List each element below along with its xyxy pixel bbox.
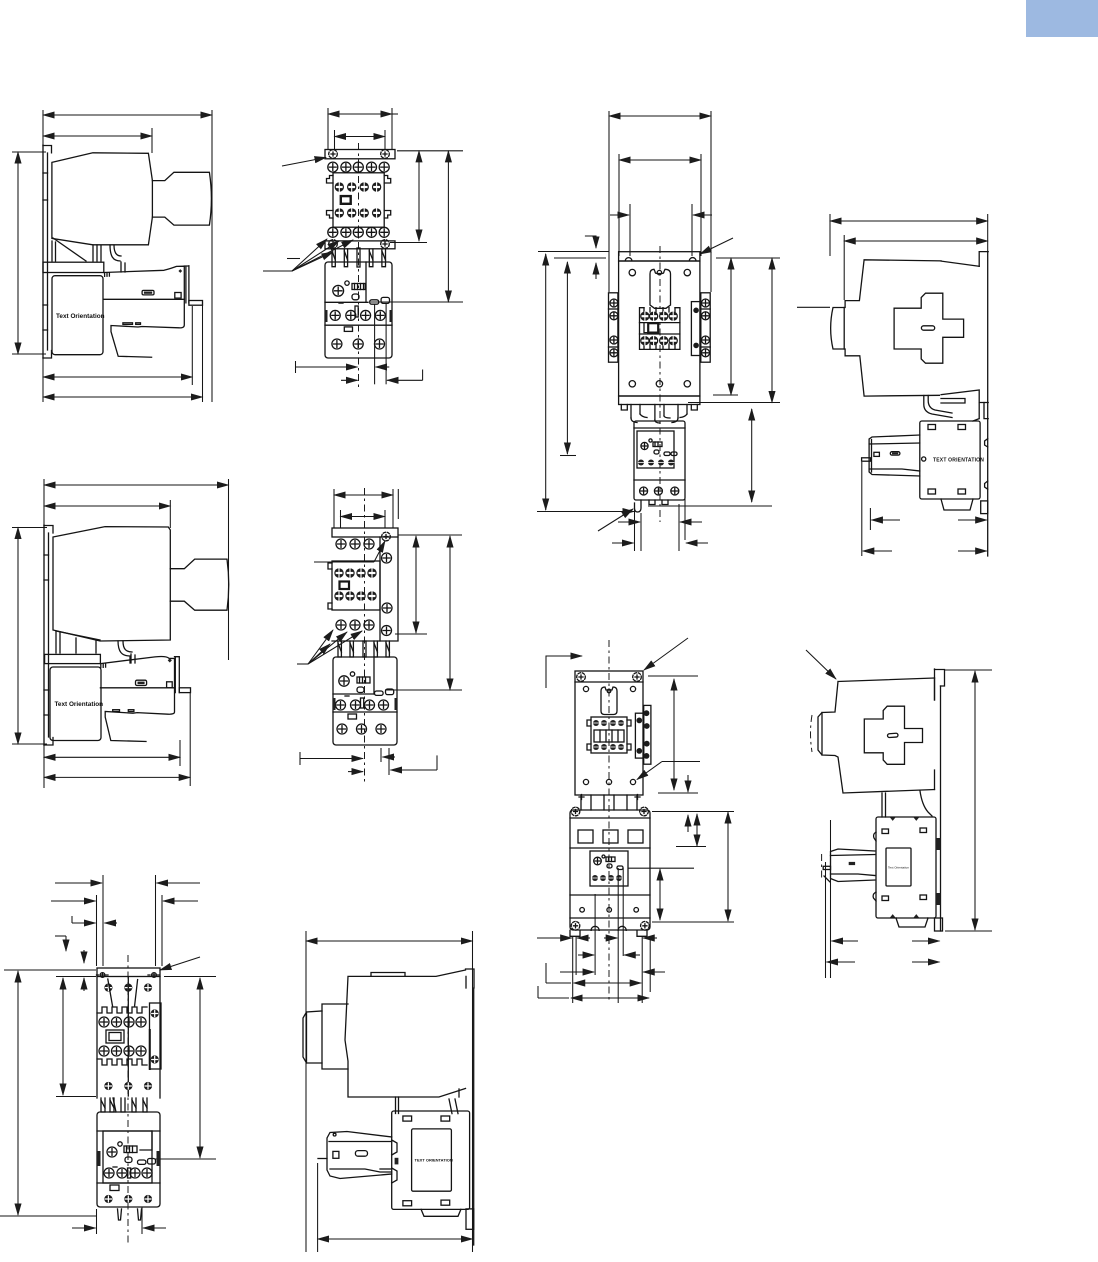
relay screw row — [336, 700, 389, 710]
witness pin — [191, 306, 193, 385]
witness outer right — [710, 111, 712, 292]
dimension bottom row 2 — [827, 961, 940, 963]
terminal screw row 1 — [336, 539, 374, 549]
add-on block right inner — [691, 302, 700, 356]
witness contactor bottom — [56, 1096, 96, 1098]
svg-text:TEXT ORIENTATION: TEXT ORIENTATION — [933, 458, 984, 464]
dimension row 1 — [55, 882, 200, 884]
mounting plane — [985, 252, 988, 556]
dimension body depth — [844, 240, 988, 242]
bottom dimension — [72, 1227, 166, 1229]
dimension height — [17, 528, 19, 745]
witness hole left — [340, 510, 342, 528]
connector legs — [338, 641, 389, 657]
coil window — [341, 196, 351, 204]
top-left bracket dimension — [546, 656, 582, 688]
witness left — [829, 214, 831, 256]
adjustment dial — [339, 672, 355, 686]
drawing 1: contactor with overload relay, side view (top-left) — [12, 110, 212, 402]
relay bottom screws — [104, 1195, 152, 1203]
dimension hole span — [673, 679, 675, 790]
witness hole left — [618, 154, 620, 256]
dimension hole pitch — [341, 516, 386, 518]
witness front face — [169, 500, 171, 528]
body outline — [619, 261, 700, 396]
bottom dim row 4 — [546, 963, 641, 983]
small offset dimension — [55, 936, 66, 951]
overload relay side box — [873, 817, 936, 918]
contactor body outline — [303, 970, 466, 1097]
dimension body height — [730, 258, 732, 395]
dimension contactor height — [415, 536, 417, 633]
overload relay housing — [97, 1112, 160, 1207]
leader to bottom fixing hole — [637, 762, 700, 780]
upper housing — [97, 977, 160, 1099]
terminal screw row 2 — [328, 227, 389, 237]
witness adjuster level — [385, 689, 462, 691]
right witness mid — [713, 394, 738, 396]
relay side clips — [325, 310, 328, 322]
dimension overall height — [449, 536, 451, 690]
witness contactor top — [56, 976, 96, 978]
witness right — [392, 489, 394, 528]
drawing 3: large contactor with overload relay, front view (top-right-centre) — [537, 111, 780, 551]
witness height bottom — [12, 743, 47, 745]
dimension depth to aux — [871, 519, 986, 521]
centre line — [127, 955, 129, 1245]
dimension outer width — [609, 115, 711, 117]
dimension module height — [659, 869, 661, 920]
overload relay side box — [392, 1111, 470, 1209]
witness relay bottom right — [648, 505, 772, 507]
bottom pins — [118, 1209, 142, 1220]
relay side clips — [333, 698, 336, 710]
witness pin line b — [830, 820, 832, 978]
witness pin line a — [825, 862, 827, 978]
relay screw row — [330, 310, 385, 320]
contactor body side outline — [52, 153, 152, 245]
bottom witness a — [374, 304, 376, 384]
witness bottom height — [12, 353, 46, 355]
lower block outline — [570, 810, 650, 930]
dimension slot band — [696, 814, 698, 846]
bottom witness b — [385, 304, 387, 384]
fixing hole dashed — [382, 532, 391, 541]
dimension right height — [199, 978, 201, 1158]
dimension contactor height — [418, 151, 420, 241]
witness pin outer — [202, 302, 204, 402]
keyhole slot — [601, 687, 617, 715]
bottom plate — [325, 241, 395, 249]
centre line — [659, 246, 661, 522]
dimension total depth — [830, 220, 988, 222]
overload relay housing — [333, 657, 397, 745]
lower block holes — [580, 908, 639, 913]
terminal comb top — [97, 1007, 147, 1013]
drawing 9: contactor with overload relay, front view (bottom-left) — [0, 875, 216, 1245]
witness relay mid — [560, 455, 576, 457]
contactor body outline — [831, 252, 989, 403]
lower screw row — [104, 1082, 152, 1090]
bottom fixing holes dashed — [329, 240, 338, 249]
coil end cap — [170, 559, 228, 610]
fixing holes dashed — [329, 150, 338, 159]
bottom witness lines — [573, 868, 651, 1003]
witness bottom long — [537, 511, 634, 513]
leader to fixing hole — [700, 238, 733, 254]
lower connector — [924, 396, 988, 422]
mounting plane witness — [987, 214, 989, 251]
witness lower block bottom — [652, 921, 734, 923]
witness pin outer — [189, 692, 191, 786]
witness left — [333, 489, 335, 528]
bottom witness lines — [635, 499, 686, 551]
corner fixing holes — [577, 673, 642, 682]
dimension row 2 — [51, 900, 198, 902]
witness slot right — [691, 204, 693, 256]
leader to fixing hole — [160, 957, 200, 970]
witness right outer — [228, 479, 230, 660]
witness lug level — [688, 402, 780, 404]
svg-text:Text Orientation: Text Orientation — [56, 313, 105, 320]
right auxiliary strip — [701, 293, 710, 362]
overload relay block — [634, 421, 685, 500]
dimension depth row 1 — [44, 756, 180, 758]
lower connector — [882, 791, 932, 817]
witness body edge bottom — [96, 1209, 98, 1234]
contactor body side outline — [53, 527, 170, 641]
auxiliary screw row a — [335, 182, 382, 191]
centre line — [608, 640, 610, 1000]
drawing 6: contactor with overload relay front view (middle) — [297, 488, 462, 782]
selector comb — [345, 677, 370, 708]
terminal screws row 1 — [99, 1017, 146, 1027]
witness edge right — [161, 895, 163, 966]
overload relay body right profile — [104, 262, 203, 357]
short witness at knob — [797, 306, 830, 308]
leader lines to terminals — [263, 239, 353, 271]
mounting holes — [583, 686, 635, 784]
right add-on column — [380, 537, 398, 641]
reset window — [348, 714, 357, 719]
witness slot left — [629, 204, 631, 256]
dimension total depth top — [306, 940, 473, 942]
coil window — [340, 582, 350, 590]
left witness top — [538, 251, 609, 253]
svg-text:Text Orientation: Text Orientation — [888, 866, 909, 870]
right clips — [936, 838, 941, 905]
bottom dim row 1 — [618, 521, 702, 523]
terminal slots — [578, 830, 643, 843]
DIN rail mounting plane — [44, 525, 53, 745]
drawing 4: large contactor with overload relay, side view (top-far-right) — [797, 214, 988, 556]
centre line — [358, 143, 360, 390]
relay screw row — [638, 460, 674, 466]
bottom hook — [635, 500, 669, 512]
dimension bottom depth — [318, 1238, 473, 1240]
witness inner — [843, 235, 845, 300]
relay module on lower block — [590, 851, 628, 886]
blue page corner marker — [1026, 0, 1098, 37]
right witness bottom — [945, 930, 992, 932]
body lower edge — [332, 640, 398, 642]
keyhole slot — [650, 269, 671, 308]
small arrow below lug line — [687, 815, 689, 832]
connector legs — [332, 248, 386, 267]
svg-text:Text Orientation: Text Orientation — [55, 701, 104, 708]
fixing holes — [97, 973, 161, 978]
aux centre line — [821, 854, 823, 880]
coil screws row b — [640, 336, 678, 345]
overload relay side box — [920, 421, 980, 499]
dimension bottom row 1 — [832, 940, 940, 942]
dimension height — [17, 152, 19, 354]
drawing 8: large contactor with overload relay, side view (middle-far-right) — [806, 650, 992, 978]
right witness top — [945, 669, 992, 671]
dimension outer width — [328, 113, 392, 115]
terminal screw row 2 — [336, 620, 374, 630]
witness pin area — [179, 740, 181, 766]
left auxiliary strip — [609, 293, 618, 362]
right witness mid — [390, 242, 427, 244]
witness line coil front — [151, 128, 153, 153]
witness slot band — [676, 846, 706, 848]
coil screws row a — [593, 720, 624, 726]
relay bottom screws — [337, 724, 386, 734]
witness height top — [12, 527, 47, 529]
bottom dim row 2 — [578, 954, 640, 956]
side clips — [97, 1151, 160, 1166]
bottom foot — [896, 918, 943, 931]
dimension total height — [974, 671, 976, 930]
overload relay body right profile — [100, 654, 190, 742]
dimension hole pitch — [619, 159, 701, 161]
bottom dim row 3 — [560, 971, 665, 973]
dimension total width — [43, 114, 212, 116]
cross shaped boss — [894, 293, 964, 363]
witness top height — [12, 151, 46, 153]
right witness top — [716, 257, 780, 259]
plate thickness arrows — [83, 950, 85, 991]
witness adjuster level — [371, 301, 464, 303]
dimension hole pitch — [335, 136, 386, 138]
top plate — [325, 150, 395, 159]
relay detail module — [637, 431, 677, 468]
witness left — [305, 931, 307, 1252]
dimension depth row 2 — [44, 776, 190, 778]
witness hole right — [384, 130, 386, 150]
right witness mid — [395, 633, 427, 635]
relay screw row — [104, 1168, 152, 1178]
witness aux bottom — [869, 508, 871, 530]
cross shaped boss — [864, 706, 922, 764]
bottom foot — [941, 499, 988, 514]
leader to fixing hole — [282, 158, 326, 167]
relay box edge marks — [890, 818, 919, 918]
lower block fixing holes — [570, 807, 649, 936]
body outline — [575, 671, 643, 795]
witness outer left — [608, 111, 610, 292]
drawing 10: contactor with overload relay, side view (bottom-middle) — [303, 931, 474, 1252]
witness lower block top — [652, 811, 734, 813]
bottom dim row 2 — [341, 370, 423, 381]
dimension overall height — [447, 151, 449, 302]
witness edge left — [96, 895, 98, 966]
bottom witness a — [380, 748, 382, 762]
right add-on strip — [150, 1003, 162, 1069]
dimension relay height — [751, 409, 753, 502]
top plate — [97, 968, 160, 977]
overload relay housing — [325, 262, 392, 358]
dimension to relay mid — [566, 262, 568, 454]
bottom dim row 2 — [612, 542, 708, 544]
dimension total height — [17, 971, 19, 1215]
centre line — [364, 488, 366, 782]
relay inner panel — [103, 1131, 152, 1183]
terminal lugs below body — [631, 405, 687, 424]
leader lines to terminals — [297, 630, 362, 664]
overload relay label face — [50, 667, 101, 741]
dimension total depth — [43, 396, 203, 398]
mounting bracket right — [466, 969, 475, 1245]
terminal lugs below body — [579, 795, 640, 811]
right witness top — [399, 534, 463, 536]
small arrow at lug level — [687, 775, 689, 792]
coil screws row a — [640, 312, 678, 321]
dash-dot front arc — [811, 715, 813, 752]
pin — [318, 1158, 327, 1160]
coil terminal block — [640, 308, 680, 350]
lower connector — [396, 1089, 460, 1114]
bottom dim row 1 — [300, 752, 395, 765]
transition legs — [56, 631, 132, 663]
witness hole right — [384, 510, 386, 528]
right witness holes bottom — [658, 792, 698, 794]
top screw row — [104, 984, 152, 992]
witness adjuster level — [155, 1158, 216, 1160]
witness total bottom — [0, 1215, 96, 1217]
dimension outer width — [334, 494, 393, 496]
dimension height to lug — [771, 258, 773, 403]
drawing 2: contactor with overload relay, front view (top-middle) — [263, 108, 463, 390]
dimension depth to pin — [43, 376, 192, 378]
witness hole left — [334, 130, 336, 150]
left witness top b — [554, 257, 606, 259]
right auxiliary strip — [635, 705, 651, 764]
dimension total depth — [44, 484, 229, 486]
witness bottom pin — [141, 1207, 143, 1234]
dimension contactor height — [62, 978, 64, 1095]
coil end cap — [152, 172, 211, 225]
test buttons — [375, 689, 394, 695]
adjustment dial — [333, 281, 349, 296]
module screw row — [592, 875, 622, 881]
witness pin bottom — [861, 462, 863, 556]
witness pin bottom — [317, 1163, 319, 1252]
reset window — [110, 1185, 119, 1191]
witness pin left — [102, 875, 104, 966]
witness total left — [4, 969, 96, 971]
contactor body outline — [818, 678, 935, 793]
witness right — [391, 108, 393, 150]
auxiliary screw row a — [334, 568, 376, 577]
main housing — [327, 173, 391, 227]
top plate — [332, 528, 398, 537]
coil terminal block — [587, 717, 631, 753]
relay bottom screws — [640, 487, 679, 495]
selector comb — [339, 284, 365, 318]
leader bottom hook — [598, 509, 633, 531]
test buttons — [370, 297, 390, 304]
bottom foot — [421, 1209, 474, 1229]
coil window — [106, 1030, 124, 1043]
small offset dimension — [585, 236, 596, 279]
witness right top — [164, 976, 216, 978]
small bracket dimension — [72, 916, 117, 923]
terminal screws row 2 — [99, 1046, 146, 1056]
auxiliary block side — [823, 849, 875, 882]
reset window — [344, 327, 352, 332]
small witness tick — [287, 258, 300, 260]
coil screws row b — [593, 744, 624, 750]
witness module top — [628, 867, 694, 869]
leader to top corner — [806, 650, 836, 679]
witness right — [472, 931, 474, 1252]
adjustment dial — [107, 1142, 122, 1157]
main housing — [328, 561, 380, 610]
drawing 7: large contactor with overload relay, front view (middle-right) — [537, 638, 734, 1003]
auxiliary block side — [327, 1132, 392, 1179]
bottom dim row 1 — [296, 361, 390, 373]
overload relay top bar — [43, 262, 104, 272]
bottom dim row 2 — [348, 755, 437, 771]
overload relay top bar — [45, 654, 101, 663]
mounting holes — [629, 269, 690, 387]
right witness top — [648, 675, 698, 677]
dimension total depth bottom — [863, 550, 987, 552]
witness left — [43, 479, 45, 788]
auxiliary screw row b — [334, 591, 376, 600]
overload relay label face — [52, 276, 103, 355]
leader to fixing hole — [644, 638, 688, 670]
terminal comb bottom — [97, 1059, 147, 1065]
dimension body depth — [44, 505, 170, 507]
dimension total height — [545, 254, 547, 510]
dimension body width — [43, 135, 152, 137]
right witness top — [397, 150, 463, 152]
leader to fixing hole — [314, 541, 385, 562]
top plate — [619, 252, 700, 261]
test buttons — [138, 1159, 156, 1165]
bottom dim row 5 — [538, 986, 649, 998]
connector legs — [101, 1098, 147, 1112]
witness left — [327, 108, 329, 150]
witness line right — [211, 110, 213, 402]
bottom witness b — [388, 748, 390, 775]
DIN rail mounting plane — [43, 145, 52, 358]
witness line left — [42, 110, 44, 402]
svg-text:TEXT ORIENTATION: TEXT ORIENTATION — [415, 1158, 453, 1163]
terminal screw row 1 — [328, 162, 389, 172]
transition legs — [52, 238, 121, 261]
dimension lower block height — [727, 812, 729, 921]
witness hole right — [700, 154, 702, 256]
bottom dim row 1 — [537, 937, 657, 939]
mounting plane — [935, 669, 945, 931]
relay bottom screws — [332, 339, 385, 349]
bottom plate — [619, 396, 700, 410]
witness pin right — [155, 875, 157, 966]
